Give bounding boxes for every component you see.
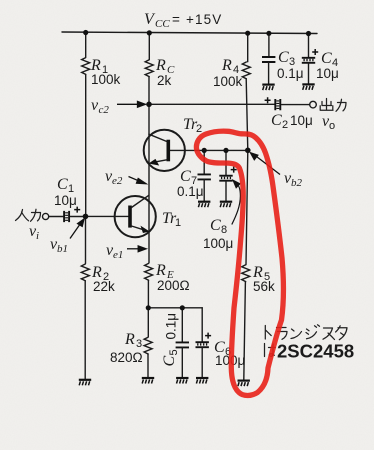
svg-text:CC: CC bbox=[155, 18, 170, 30]
svg-text:o: o bbox=[329, 120, 335, 132]
svg-text:200Ω: 200Ω bbox=[157, 278, 190, 293]
svg-text:C: C bbox=[321, 50, 332, 67]
svg-text:C: C bbox=[210, 217, 221, 234]
svg-text:C: C bbox=[271, 112, 282, 129]
svg-text:b2: b2 bbox=[291, 177, 303, 189]
svg-text:2: 2 bbox=[196, 123, 202, 135]
svg-text:R: R bbox=[155, 57, 166, 74]
svg-text:R: R bbox=[155, 262, 166, 279]
svg-text:3: 3 bbox=[136, 338, 142, 350]
svg-text:100μ: 100μ bbox=[203, 236, 233, 251]
svg-text:10μ: 10μ bbox=[54, 193, 77, 208]
svg-text:100k: 100k bbox=[91, 72, 121, 87]
svg-text:5: 5 bbox=[168, 349, 180, 355]
svg-text:2SC2458: 2SC2458 bbox=[277, 341, 354, 362]
svg-text:820Ω: 820Ω bbox=[110, 350, 143, 365]
svg-text:22k: 22k bbox=[93, 279, 115, 294]
svg-text:R: R bbox=[221, 57, 232, 74]
svg-text:c2: c2 bbox=[99, 104, 110, 116]
svg-text:100k: 100k bbox=[213, 74, 243, 89]
svg-text:e1: e1 bbox=[113, 249, 123, 261]
svg-text:0.1μ: 0.1μ bbox=[164, 313, 179, 340]
svg-text:8: 8 bbox=[221, 224, 227, 236]
svg-text:i: i bbox=[36, 230, 39, 242]
svg-text:C: C bbox=[161, 356, 178, 367]
svg-text:2: 2 bbox=[282, 119, 288, 131]
svg-text:0.1μ: 0.1μ bbox=[177, 184, 204, 199]
svg-text:=: = bbox=[172, 12, 180, 27]
svg-text:e2: e2 bbox=[112, 175, 123, 187]
svg-text:C: C bbox=[180, 168, 191, 185]
svg-text:56k: 56k bbox=[253, 279, 275, 294]
svg-text:C: C bbox=[278, 49, 289, 66]
svg-text:2k: 2k bbox=[157, 73, 172, 88]
svg-text:C: C bbox=[57, 176, 68, 193]
svg-text:1: 1 bbox=[175, 217, 181, 229]
svg-text:R: R bbox=[124, 331, 135, 348]
svg-text:10μ: 10μ bbox=[316, 66, 339, 81]
svg-text:b1: b1 bbox=[57, 243, 68, 255]
svg-text:+15V: +15V bbox=[186, 12, 222, 27]
svg-text:0.1μ: 0.1μ bbox=[277, 66, 304, 81]
svg-text:10μ: 10μ bbox=[290, 113, 313, 128]
